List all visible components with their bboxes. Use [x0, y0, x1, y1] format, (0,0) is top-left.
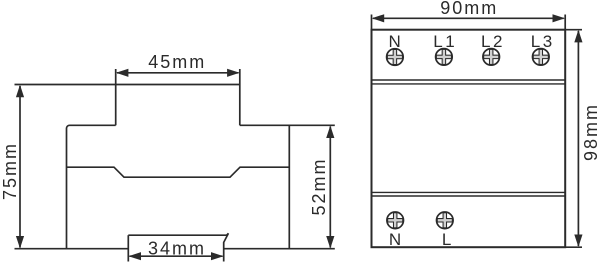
arrowhead 75mm bottom	[16, 236, 24, 249]
right view lower separator line 2	[372, 195, 566, 197]
left view top edge line (with extension to 75mm dimension)	[15, 84, 241, 86]
svg-text:75mm: 75mm	[0, 142, 20, 200]
left view bottom edge right segment (with 52mm extension)	[224, 248, 335, 250]
arrowhead 75mm top	[16, 85, 24, 98]
screw terminal N top	[387, 49, 404, 66]
svg-text:90mm: 90mm	[440, 0, 498, 18]
dimension line 52mm	[329, 127, 331, 248]
arrowhead 52mm bottom	[326, 236, 334, 249]
98mm extension line top	[565, 29, 582, 31]
right view lower separator line 1	[372, 191, 566, 193]
90mm extension line left	[371, 15, 373, 30]
svg-text:L: L	[442, 230, 451, 249]
34mm callout box left edge	[127, 235, 129, 261]
dimension line 98mm	[577, 31, 579, 246]
svg-text:98mm: 98mm	[581, 103, 600, 161]
left view body shoulder left segment	[67, 125, 116, 248]
dimension line 90mm	[373, 17, 564, 19]
svg-text:N: N	[389, 230, 401, 249]
screw terminal L1	[436, 49, 453, 66]
dimension line 45mm	[117, 72, 239, 74]
svg-text:34mm: 34mm	[148, 238, 206, 258]
screw terminal L bottom	[437, 212, 454, 229]
left view top block right edge	[239, 69, 241, 125]
right view upper separator line 2	[372, 83, 566, 85]
arrowhead 45mm left	[116, 69, 128, 77]
arrowhead 34mm right	[211, 252, 224, 260]
arrowhead 90mm right	[553, 14, 566, 22]
arrowhead 98mm top	[574, 30, 582, 43]
dimension line 75mm	[19, 86, 21, 248]
screw terminal L3	[533, 49, 550, 66]
arrowhead 45mm right	[227, 69, 240, 77]
arrowhead 98mm bottom	[574, 235, 582, 248]
screw terminal L2	[483, 49, 500, 66]
34mm callout box top edge with torn corner	[128, 233, 228, 261]
left view bottom edge left segment (with extension to 75mm dimension)	[15, 248, 129, 250]
98mm extension line bottom	[565, 246, 582, 248]
svg-text:52mm: 52mm	[309, 157, 329, 215]
90mm extension line right	[564, 15, 566, 30]
left view body shoulder right segment (with 52mm extension)	[240, 124, 335, 126]
arrowhead 34mm left	[129, 252, 142, 260]
left view face groove line	[67, 167, 290, 177]
screw terminal N bottom	[387, 212, 404, 229]
arrowhead 90mm left	[372, 14, 385, 22]
dimension line 34mm	[130, 255, 223, 257]
svg-text:45mm: 45mm	[148, 52, 206, 72]
left view top block left edge	[115, 69, 117, 125]
arrowhead 52mm top	[326, 126, 334, 139]
left view body right edge	[288, 125, 290, 248]
right view upper separator line 1	[372, 79, 566, 81]
right view outer box	[372, 30, 566, 248]
